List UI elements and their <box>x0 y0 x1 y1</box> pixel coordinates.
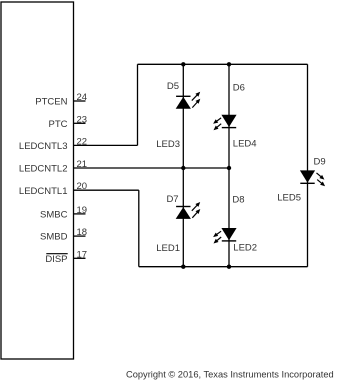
svg-text:LEDCNTL2: LEDCNTL2 <box>19 164 68 175</box>
svg-text:D8: D8 <box>232 194 244 205</box>
svg-text:SMBD: SMBD <box>40 232 68 243</box>
svg-text:21: 21 <box>77 159 88 170</box>
svg-text:LED2: LED2 <box>233 242 257 253</box>
svg-text:LED4: LED4 <box>233 139 257 150</box>
svg-text:LED1: LED1 <box>156 243 180 254</box>
svg-text:20: 20 <box>77 181 88 192</box>
svg-text:24: 24 <box>77 92 88 103</box>
svg-text:LEDCNTL1: LEDCNTL1 <box>19 186 68 197</box>
svg-text:23: 23 <box>77 114 88 125</box>
svg-text:Copyright © 2016, Texas Instru: Copyright © 2016, Texas Instruments Inco… <box>126 370 334 380</box>
svg-text:D5: D5 <box>167 81 179 92</box>
svg-text:18: 18 <box>77 227 88 238</box>
svg-text:D7: D7 <box>166 194 178 205</box>
svg-text:PTC: PTC <box>49 119 68 130</box>
svg-text:PTCEN: PTCEN <box>35 97 67 108</box>
svg-text:LED3: LED3 <box>156 139 180 150</box>
svg-text:LED5: LED5 <box>277 192 301 203</box>
svg-text:LEDCNTL3: LEDCNTL3 <box>19 141 68 152</box>
svg-text:D9: D9 <box>314 157 326 168</box>
svg-text:SMBC: SMBC <box>40 210 68 221</box>
svg-text:17: 17 <box>77 249 88 260</box>
svg-text:D6: D6 <box>233 83 245 94</box>
svg-text:19: 19 <box>77 205 88 216</box>
svg-text:DISP: DISP <box>45 254 67 265</box>
svg-text:22: 22 <box>77 136 88 147</box>
